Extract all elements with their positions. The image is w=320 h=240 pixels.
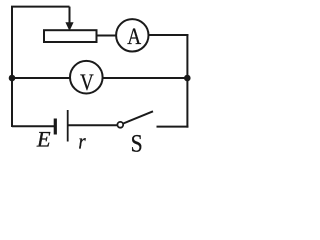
wire left vertical bbox=[11, 6, 13, 127]
wire voltmeter to right junction bbox=[103, 77, 188, 79]
battery negative plate (short thick) bbox=[54, 119, 57, 135]
wire ammeter to right corner bbox=[149, 34, 189, 36]
junction node left bbox=[9, 75, 16, 82]
wire battery to switch bbox=[69, 124, 118, 126]
wire top horizontal bbox=[11, 6, 70, 8]
wire rheostat to ammeter bbox=[97, 35, 117, 37]
battery positive plate (long thin) bbox=[67, 110, 69, 142]
svg-text:V: V bbox=[80, 69, 94, 96]
rheostat wiper arrowhead bbox=[65, 22, 73, 31]
ammeter A circle bbox=[116, 19, 148, 51]
svg-text:S: S bbox=[131, 130, 143, 153]
svg-text:A: A bbox=[127, 23, 141, 49]
svg-text:r: r bbox=[78, 130, 85, 153]
voltmeter V circle bbox=[70, 61, 103, 94]
wire left junction to voltmeter bbox=[12, 77, 70, 79]
switch lever bbox=[123, 111, 153, 123]
wire switch fixed contact to bottom right corner bbox=[157, 126, 189, 128]
wire bottom left to battery bbox=[12, 125, 54, 127]
wire right vertical bbox=[186, 34, 188, 128]
rheostat wiper arrow stem bbox=[69, 7, 71, 24]
svg-text:E: E bbox=[36, 127, 51, 152]
switch pivot contact circle bbox=[117, 122, 123, 128]
junction node right bbox=[184, 75, 191, 82]
rheostat R box bbox=[44, 30, 97, 42]
